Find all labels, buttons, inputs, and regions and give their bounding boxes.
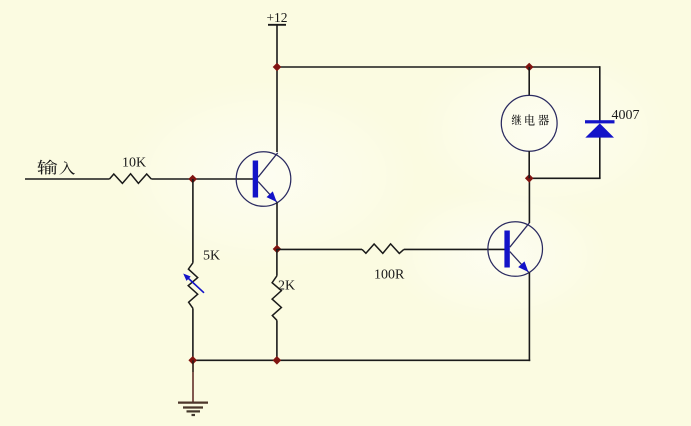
svg-text:100R: 100R — [374, 268, 405, 283]
wire Q2 emitter down to bottom rail — [528, 273, 530, 362]
resistor R3 2K body — [272, 276, 281, 321]
svg-text:+12: +12 — [266, 10, 287, 25]
wire 5K down to ground node — [192, 308, 194, 360]
wire ground stem — [192, 360, 194, 372]
wire diode bottom to relay node — [529, 177, 601, 179]
wire node B to 100R — [277, 248, 362, 250]
power +12 rail bar — [268, 24, 286, 26]
potentiometer 5K wiper arrow — [183, 274, 204, 293]
svg-text:5K: 5K — [203, 249, 220, 264]
wire bottom rail — [192, 359, 530, 361]
wire node B down to 2K — [276, 249, 278, 276]
wire top rail — [277, 66, 600, 68]
ground symbol — [178, 403, 208, 415]
relay K1 label 继电器 — [512, 114, 522, 125]
wire +12 down to top node — [276, 25, 278, 67]
diode D1 anode triangle — [585, 123, 614, 137]
wire diode anode down — [599, 138, 601, 179]
node: 2K / bottom rail — [273, 356, 282, 365]
node: relay / diode / Q2 collector — [525, 174, 534, 183]
wire input lead — [25, 178, 110, 180]
node B: Q1 emitter / 100R / 2K — [273, 245, 282, 254]
wire Q1 collector up to top rail — [276, 67, 278, 152]
node: top rail / relay — [525, 63, 534, 72]
diode D1 cathode bar — [585, 120, 615, 123]
potentiometer 5K body — [188, 263, 198, 309]
wire relay top lead — [528, 67, 530, 95]
wire Q1 emitter down to node B — [276, 203, 278, 250]
wire relay bottom lead — [528, 151, 530, 178]
svg-text:4007: 4007 — [612, 108, 640, 123]
input label 输入 — [37, 160, 57, 175]
resistor R2 100R body — [362, 244, 404, 254]
relay K1 circle — [501, 95, 557, 151]
wire node A down to 5K — [192, 179, 194, 263]
wire 2K down to bottom rail — [276, 320, 278, 360]
node A: base of Q1 / 10K / 5K — [188, 175, 197, 184]
wire Q2 collector up to relay node — [528, 178, 530, 223]
resistor R1 10K body — [110, 174, 152, 184]
node: top rail / Q1 collector — [273, 63, 282, 72]
svg-text:10K: 10K — [122, 156, 146, 171]
wire 100R to Q2 base — [404, 248, 505, 250]
wire right drop to diode cathode — [599, 66, 601, 121]
node: ground junction — [188, 356, 197, 365]
transistor Q1 — [236, 152, 291, 207]
transistor Q2 — [488, 222, 543, 277]
wire 10K to node A — [151, 178, 253, 180]
